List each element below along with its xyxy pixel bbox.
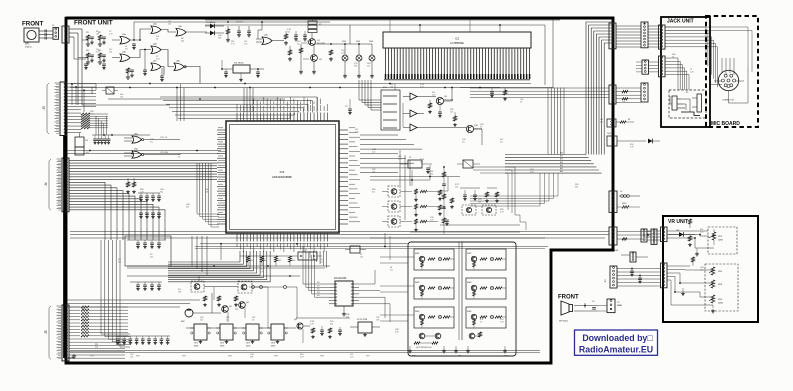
svg-text:0.01: 0.01	[350, 356, 354, 358]
VR UNIT border	[663, 216, 758, 322]
bank divider	[459, 242, 462, 340]
rail y83	[70, 83, 531, 85]
wire sp1-j101	[39, 25, 55, 40]
box X2	[350, 319, 380, 337]
nest rails right	[473, 167, 526, 230]
bank grounds	[408, 346, 507, 353]
svg-text:220: 220	[600, 121, 603, 123]
chain x444	[442, 166, 446, 234]
caps row CA1	[138, 193, 161, 202]
connector J18	[651, 229, 657, 244]
cap C110	[345, 99, 352, 115]
wires J7-jack	[648, 26, 662, 47]
svg-text:MIC: MIC	[181, 321, 185, 323]
svg-text:MAIN: MAIN	[617, 304, 622, 307]
bank label	[416, 347, 432, 349]
IC6 gnd	[342, 306, 346, 316]
cap Cq1	[490, 88, 494, 98]
connector J14	[641, 83, 648, 102]
svg-text:47u: 47u	[226, 319, 229, 321]
vbundle left low	[101, 240, 120, 330]
svg-text:47u: 47u	[390, 269, 393, 271]
svg-text:100: 100	[287, 31, 290, 33]
VR UNIT title	[668, 219, 688, 225]
wires VR2-4	[667, 257, 715, 313]
wire top rail	[205, 20, 330, 23]
svg-text:100: 100	[200, 319, 203, 321]
res mic3	[217, 296, 221, 307]
fet Q103	[191, 281, 204, 292]
wires VR1	[667, 219, 714, 256]
rail y99	[108, 98, 285, 100]
svg-text:455K: 455K	[194, 346, 199, 348]
speaker SP2	[559, 301, 573, 323]
rc R101	[86, 35, 94, 46]
res pair mid2	[485, 188, 499, 203]
svg-text:JACK UNIT: JACK UNIT	[667, 19, 694, 25]
svg-text:0.01: 0.01	[90, 113, 94, 115]
svg-text:33p: 33p	[430, 173, 433, 175]
svg-text:R210: R210	[622, 203, 627, 205]
svg-text:47u: 47u	[462, 141, 465, 143]
choke L5	[619, 191, 640, 198]
lamps DS1-3	[314, 41, 375, 78]
connector J101	[53, 28, 59, 40]
cap bank 2	[130, 282, 162, 291]
svg-text:0.01: 0.01	[430, 219, 434, 221]
speaker SP1	[24, 28, 39, 42]
component value labels	[90, 21, 704, 358]
label C5	[236, 22, 244, 24]
svg-text:AF6: AF6	[560, 170, 563, 173]
af labels	[560, 152, 563, 174]
svg-text:100: 100	[372, 171, 375, 173]
dashed pair QD	[462, 205, 496, 215]
speaker SP1 text	[25, 43, 32, 49]
vbundle x197 turns	[197, 212, 219, 227]
J5 caps	[116, 336, 170, 345]
svg-text:SI1: SI1	[317, 285, 320, 287]
svg-text:FRONT UNIT: FRONT UNIT	[74, 20, 113, 27]
svg-text:100: 100	[120, 96, 123, 98]
rail y266	[127, 265, 330, 277]
svg-text:0.01: 0.01	[320, 261, 324, 263]
svg-text:C9: C9	[592, 301, 594, 303]
wires J21-J19	[647, 231, 661, 240]
res R107	[226, 26, 230, 42]
connector J102	[62, 26, 69, 43]
svg-text:100: 100	[700, 269, 703, 271]
mid wires2	[370, 225, 545, 238]
rc R105	[126, 68, 134, 79]
IC6 left wires	[303, 246, 329, 297]
svg-text:47u: 47u	[645, 239, 648, 241]
gate U2a	[151, 24, 161, 34]
test points	[249, 286, 297, 318]
cap CB1	[320, 326, 324, 336]
svg-text:33p: 33p	[95, 346, 98, 348]
diode D21	[668, 230, 695, 247]
coil T1	[400, 157, 432, 174]
connector J17	[609, 227, 617, 245]
svg-text:AF2: AF2	[560, 158, 563, 161]
svg-text:Q21 2SC4617 x8: Q21 2SC4617 x8	[416, 347, 432, 349]
svg-text:220: 220	[150, 256, 153, 258]
cap C105	[303, 31, 307, 41]
IC5 left pins	[217, 128, 227, 224]
svg-text:MIC BOARD: MIC BOARD	[711, 121, 740, 127]
svg-text:SP 8ohm: SP 8ohm	[559, 321, 568, 323]
box X5	[457, 160, 480, 168]
connector J19	[661, 227, 668, 242]
filter joins	[207, 327, 296, 329]
svg-text:33p: 33p	[575, 186, 578, 188]
res Rq3	[503, 88, 507, 101]
diode D102	[205, 31, 224, 36]
svg-text:E301: E301	[614, 250, 618, 252]
J23 label	[617, 302, 622, 307]
gnd trunk	[64, 135, 76, 358]
svg-text:IC2: IC2	[455, 37, 460, 41]
box X4	[75, 147, 89, 155]
jumper box JP2	[345, 246, 366, 253]
wires J13-J14	[616, 88, 641, 102]
watermark box	[575, 330, 658, 355]
wires jack-mic nest	[665, 27, 752, 87]
rail y231	[70, 232, 609, 239]
bottom labels	[90, 356, 510, 358]
svg-text:SI2: SI2	[317, 289, 320, 291]
mid wires	[370, 165, 460, 191]
transistor Q108	[294, 319, 303, 329]
label box IC3	[381, 87, 400, 130]
gate U3a	[176, 26, 186, 36]
res R210	[617, 203, 640, 208]
svg-text:SI4: SI4	[317, 295, 320, 297]
staircase to jack	[586, 22, 613, 155]
svg-text:R41: R41	[264, 260, 267, 262]
connector J13	[609, 85, 616, 104]
svg-text:VR UNIT: VR UNIT	[668, 219, 688, 225]
res R111	[329, 50, 333, 61]
transistor Q106	[239, 302, 250, 309]
svg-text:220: 220	[168, 23, 171, 25]
svg-text:IC4 78L05: IC4 78L05	[234, 63, 244, 65]
caps row under J3	[93, 135, 110, 144]
res RA2	[126, 178, 136, 194]
wires J5 res array	[69, 306, 128, 358]
wires J17	[617, 232, 651, 241]
IC2 body	[383, 32, 531, 48]
connector J22	[614, 250, 648, 262]
MIC BOARD border	[706, 16, 758, 127]
gate U3b	[174, 61, 186, 71]
af bus	[505, 155, 602, 174]
bank outline	[408, 242, 516, 356]
wires J16b-J20	[617, 268, 661, 286]
connector J9b	[636, 60, 659, 74]
IC6 right wires	[359, 270, 390, 322]
bank left wires	[380, 257, 414, 321]
IC5 top pins	[237, 104, 327, 121]
IC6 pins	[329, 283, 359, 304]
svg-text:220: 220	[367, 65, 370, 67]
connector J3 strip	[42, 82, 67, 136]
svg-text:AF5: AF5	[560, 167, 563, 170]
svg-text:20KA: 20KA	[718, 302, 723, 305]
rc R103	[86, 53, 94, 64]
svg-text:33p: 33p	[181, 40, 184, 42]
svg-text:0.01: 0.01	[244, 43, 248, 45]
switch cell SW2	[466, 249, 506, 270]
svg-text:LCD INH: LCD INH	[160, 152, 169, 154]
wires mic amp	[186, 276, 268, 328]
IC5 top comb up	[254, 97, 321, 104]
VR box1	[708, 227, 737, 254]
IC5 top nest wires	[160, 97, 317, 119]
cap C103	[247, 26, 251, 37]
mic connector	[718, 70, 738, 90]
gate U5b	[124, 149, 180, 159]
svg-text:FRONT: FRONT	[22, 21, 44, 28]
IC5 body	[226, 121, 339, 233]
svg-text:U2c: U2c	[153, 61, 157, 63]
IC5 bottom stubs	[310, 251, 327, 268]
svg-text:33p: 33p	[118, 261, 121, 263]
connector J5 strip	[44, 305, 69, 361]
gnd Q101	[299, 70, 303, 74]
transistor Q101	[309, 39, 325, 46]
svg-text:J5: J5	[44, 330, 48, 334]
gate U1b	[120, 52, 130, 62]
vbundle x177	[177, 84, 184, 121]
wires comb down	[359, 80, 381, 110]
connector J16b	[605, 266, 617, 288]
vert drops right	[400, 150, 410, 220]
gate U5a	[124, 134, 180, 144]
res Rq2	[453, 112, 457, 127]
misc under J3	[92, 116, 150, 136]
svg-text:0.01: 0.01	[96, 51, 100, 53]
jack J11	[681, 94, 702, 116]
svg-text:220: 220	[455, 186, 458, 188]
gate U2b	[151, 44, 161, 54]
res mic1	[203, 296, 207, 307]
rail y105	[82, 104, 170, 106]
svg-text:Downloaded by□: Downloaded by□	[582, 333, 653, 343]
dot gates	[133, 39, 146, 50]
jack sub-board	[669, 90, 706, 118]
MIC BOARD title	[711, 121, 740, 127]
IC5 top vwires	[244, 88, 253, 113]
res row under QFP	[240, 256, 296, 266]
IC4 regulator	[221, 60, 264, 82]
svg-text:220: 220	[186, 206, 189, 208]
svg-text:IC5: IC5	[280, 170, 285, 174]
mic pins	[721, 74, 735, 101]
switch cell SW1	[414, 249, 454, 270]
box D5	[102, 87, 118, 94]
IC5 bottom pins	[237, 233, 327, 252]
svg-text:47u: 47u	[500, 141, 503, 143]
wires amps	[395, 84, 500, 146]
rail y350	[70, 351, 540, 353]
res array RA0	[81, 113, 108, 129]
bus y90	[470, 88, 609, 98]
jack misc	[670, 92, 689, 104]
wires bottom mid	[296, 318, 350, 343]
switch cell SW3	[414, 278, 454, 299]
pair Qp2	[469, 332, 481, 339]
cap row mid	[460, 188, 480, 201]
svg-text:47u: 47u	[372, 191, 375, 193]
cap C109	[160, 76, 164, 82]
wires J3	[67, 84, 96, 133]
rc labels	[86, 32, 102, 52]
svg-text:R43: R43	[292, 260, 295, 262]
cap C107	[132, 43, 136, 50]
wires J102 in	[69, 29, 86, 105]
connector J8	[659, 25, 666, 49]
amp U6a	[403, 93, 424, 100]
wires SP2	[574, 301, 607, 311]
gnd Q102	[312, 70, 316, 74]
switch trio Q301-3	[382, 186, 438, 232]
svg-text:455K: 455K	[246, 346, 251, 348]
rail left y150	[66, 150, 221, 155]
pair Qp1	[414, 333, 441, 344]
cap C106	[84, 64, 106, 70]
switch cell SW4	[466, 278, 506, 299]
res mic2	[234, 296, 238, 307]
filter X101	[308, 18, 322, 33]
JACK UNIT title	[667, 19, 694, 25]
IC2 pin comb	[386, 48, 530, 79]
svg-text:R42: R42	[278, 260, 281, 262]
svg-text:RadioAmateur.EU: RadioAmateur.EU	[579, 345, 653, 355]
connector J6	[609, 23, 616, 49]
svg-text:100: 100	[109, 51, 112, 53]
conn J15	[607, 119, 634, 127]
rc R104	[98, 53, 106, 64]
svg-text:0.01: 0.01	[432, 94, 436, 96]
svg-text:FRONT: FRONT	[558, 295, 579, 301]
gate wires	[78, 22, 207, 84]
rail y244	[195, 233, 548, 260]
svg-text:47u: 47u	[150, 141, 153, 143]
svg-text:100: 100	[420, 161, 423, 163]
connector J21	[641, 229, 647, 242]
svg-text:220: 220	[346, 316, 349, 318]
svg-text:R40: R40	[250, 260, 253, 262]
nest corners	[192, 236, 207, 275]
filters CF1-4	[190, 324, 288, 348]
pot VR3	[709, 280, 723, 288]
wires J4 fan	[69, 160, 217, 240]
wires Q cluster	[301, 33, 314, 70]
res Rq1	[428, 100, 432, 114]
svg-text:AF1: AF1	[560, 155, 563, 158]
svg-text:LCD CK: LCD CK	[160, 137, 168, 139]
cap bank box	[125, 236, 171, 266]
mic wires	[710, 58, 748, 103]
IC6 body	[334, 277, 353, 306]
rc R102	[98, 35, 106, 46]
IC5 right pins	[339, 128, 360, 224]
wires J6-J7	[616, 26, 641, 47]
cap C102	[237, 26, 241, 37]
svg-text:455K: 455K	[271, 346, 276, 348]
svg-text:47u: 47u	[125, 48, 128, 50]
fet Q104	[238, 281, 252, 293]
vbundle turns low	[101, 330, 130, 347]
svg-text:SI3: SI3	[317, 292, 320, 294]
box TH1	[607, 133, 660, 146]
connector J7	[641, 22, 648, 48]
transistor Q102	[311, 55, 323, 62]
JACK UNIT border	[661, 17, 710, 127]
svg-text:AF4: AF4	[560, 164, 563, 167]
cap C108	[143, 70, 147, 76]
svg-text:SP1: SP1	[25, 43, 30, 46]
rail y300	[66, 300, 200, 311]
jumper box JP1	[296, 252, 322, 260]
connector J4 strip	[44, 158, 69, 212]
svg-text:220: 220	[130, 356, 133, 358]
connector J23	[607, 299, 615, 313]
connector J9	[659, 56, 666, 77]
transistor Q201	[436, 96, 453, 105]
wires J3 drops	[71, 83, 85, 112]
svg-text:455K: 455K	[220, 346, 225, 348]
res R110	[288, 46, 292, 61]
gate U1a	[120, 34, 130, 44]
svg-text:0.01: 0.01	[372, 151, 376, 153]
amp U6b	[403, 110, 424, 117]
svg-text:D1 MA111: D1 MA111	[206, 21, 216, 24]
res RB1	[311, 328, 315, 339]
svg-text:33p: 33p	[354, 65, 357, 67]
connector J20	[661, 263, 668, 288]
switch cell SW6	[466, 307, 506, 328]
connector J16	[609, 191, 617, 212]
amp U6c	[403, 124, 424, 131]
wires J9 down	[665, 58, 689, 90]
transistor Q202	[466, 125, 481, 133]
pot VR2	[709, 267, 723, 275]
svg-text:AF0: AF0	[560, 152, 563, 155]
af nest down	[470, 173, 558, 206]
IC2 pad rail	[384, 79, 530, 81]
rail y87	[70, 83, 553, 89]
svg-text:16ohm: 16ohm	[25, 47, 32, 49]
svg-text:33p: 33p	[330, 323, 333, 325]
res R109	[299, 44, 302, 58]
mic left wires	[0, 0, 1, 1]
watermark text	[579, 333, 653, 355]
VR box2	[705, 264, 738, 311]
svg-text:47u: 47u	[297, 43, 300, 45]
FRONT label	[22, 21, 44, 28]
res RB2	[328, 328, 332, 339]
box X3	[75, 133, 88, 147]
FRONT UNIT title	[74, 20, 113, 27]
vbundle x197	[197, 163, 211, 212]
diode D101	[205, 21, 224, 28]
jack J10	[672, 96, 690, 112]
FRONT UNIT border	[66, 17, 613, 363]
gate U2c	[151, 61, 161, 71]
